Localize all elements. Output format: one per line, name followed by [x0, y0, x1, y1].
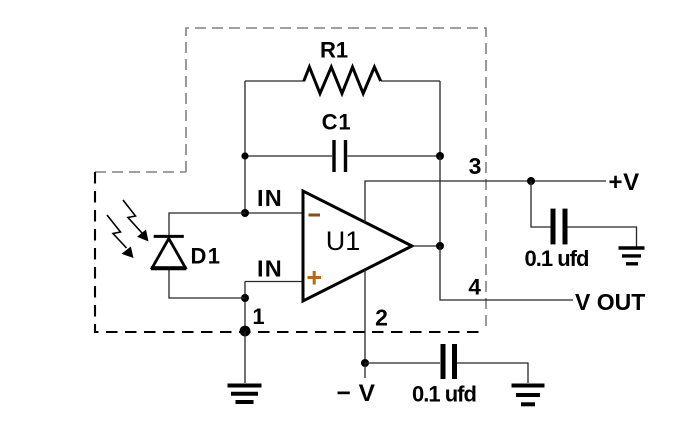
wire right vertical from R1 to C1 node [439, 81, 441, 156]
svg-text:D1: D1 [191, 244, 222, 269]
op-amp plus marker [308, 271, 322, 285]
svg-text:+V: +V [609, 169, 640, 196]
node IN minus [241, 209, 249, 217]
node IN plus junction [241, 294, 249, 302]
svg-text:C1: C1 [322, 110, 352, 135]
wire pin 3 supply [365, 181, 606, 223]
capacitor -V bypass plates [443, 344, 455, 379]
node 1 junction [240, 326, 251, 337]
node C1 left [241, 152, 248, 159]
svg-text:R1: R1 [320, 38, 348, 63]
svg-text:V OUT: V OUT [575, 289, 645, 315]
capacitor C1 plates [334, 140, 346, 172]
svg-text:U1: U1 [326, 226, 361, 256]
ground node 1 [228, 386, 262, 403]
node output [436, 242, 444, 250]
wire op-amp output [412, 245, 440, 247]
dashed module outline (gray upper part) [95, 28, 486, 332]
svg-text:1: 1 [252, 304, 264, 329]
wire -V bypass left [365, 362, 440, 364]
wire left vertical feedback [244, 81, 246, 213]
ground +V bypass [619, 248, 645, 264]
wire inverting input [245, 212, 303, 214]
wire pin 2 supply [364, 270, 366, 363]
svg-text:IN: IN [257, 256, 283, 282]
wire feedback down to output node [439, 156, 441, 246]
wire R1 right lead [381, 80, 440, 82]
svg-text:4: 4 [468, 275, 481, 300]
wire photodiode top lead [169, 213, 245, 236]
wire -V bypass right [457, 363, 528, 383]
svg-text:3: 3 [469, 153, 482, 179]
node -V junction [361, 359, 369, 367]
wire C1 right [348, 155, 441, 157]
svg-text:IN: IN [257, 185, 283, 211]
wire -V stub [364, 363, 366, 378]
svg-text:2: 2 [375, 304, 388, 330]
light arrow upper [123, 200, 149, 242]
wire node 1 to ground [244, 331, 246, 383]
node +V junction [527, 177, 535, 185]
wire +V bypass right [568, 227, 637, 247]
photodiode D1 [151, 236, 187, 268]
wire output to V OUT [440, 246, 573, 300]
wire C1 left [245, 155, 332, 157]
dashed module outline (dark lower-left part) [95, 172, 486, 332]
ground -V bypass [512, 386, 545, 405]
op-amp U1 triangle [303, 191, 412, 301]
resistor R1 zigzag [304, 67, 381, 94]
wire +V bypass left [531, 181, 551, 227]
op-amp minus marker [309, 214, 321, 217]
wire non-inverting input [245, 282, 303, 332]
node C1 right [436, 152, 444, 160]
svg-text:− V: − V [337, 380, 376, 407]
svg-text:0.1 ufd: 0.1 ufd [412, 382, 476, 407]
light arrow lower [107, 215, 134, 258]
capacitor +V bypass plates [553, 209, 565, 245]
wire photodiode bottom lead [169, 268, 245, 298]
wire R1 left lead [245, 80, 305, 82]
svg-text:0.1 ufd: 0.1 ufd [525, 246, 589, 271]
